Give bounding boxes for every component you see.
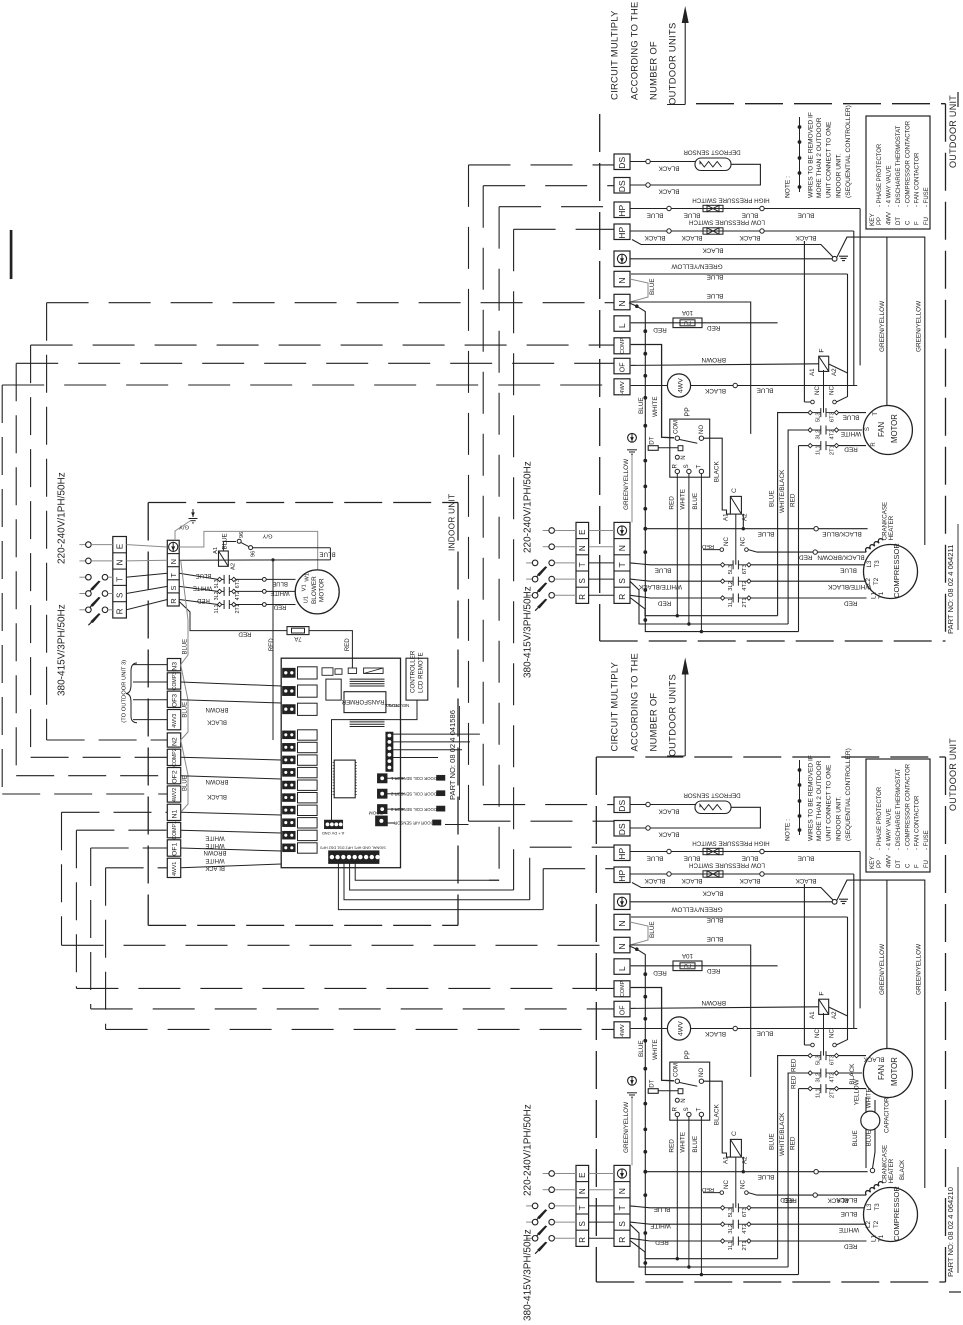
black bond wire to earth bbox=[632, 240, 834, 259]
svg-text:WIRES TO BE REMOVED IF: WIRES TO BE REMOVED IF bbox=[807, 112, 814, 198]
svg-text:BLUE: BLUE bbox=[654, 1205, 671, 1212]
svg-text:OF: OF bbox=[620, 1005, 627, 1015]
svg-text:DT: DT bbox=[649, 1079, 656, 1087]
svg-text:4T2: 4T2 bbox=[830, 1073, 836, 1083]
svg-text:WHITE: WHITE bbox=[680, 489, 687, 510]
svg-text:HP: HP bbox=[617, 848, 627, 860]
svg-text:BLACK: BLACK bbox=[714, 1104, 721, 1126]
removable-wire marker line with dots bbox=[799, 760, 801, 835]
svg-text:OF2: OF2 bbox=[171, 770, 178, 783]
svg-text:2T1: 2T1 bbox=[235, 604, 241, 613]
fuse FU 10A bbox=[631, 322, 778, 324]
svg-text:380-415V/3PH/50Hz: 380-415V/3PH/50Hz bbox=[523, 586, 534, 678]
svg-text:BLUE: BLUE bbox=[684, 854, 701, 861]
fan motor bbox=[863, 1049, 912, 1098]
svg-text:3L2: 3L2 bbox=[728, 581, 734, 591]
svg-text:(SEQUENTIAL CONTROLLER): (SEQUENTIAL CONTROLLER) bbox=[845, 748, 852, 841]
svg-text:RED: RED bbox=[657, 600, 671, 607]
svg-text:OUTDOOR UNIT: OUTDOOR UNIT bbox=[948, 738, 958, 811]
PCB relay rows (OUT FAN group) bbox=[283, 668, 296, 677]
svg-text:S: S bbox=[578, 1221, 587, 1226]
svg-text:BLACK: BLACK bbox=[644, 877, 666, 884]
svg-text:S: S bbox=[115, 593, 124, 598]
svg-text:N: N bbox=[617, 920, 627, 926]
svg-text:NC: NC bbox=[814, 1029, 821, 1038]
wires R/S/T risers to F contacts bbox=[778, 1056, 808, 1259]
svg-text:A1: A1 bbox=[213, 547, 219, 554]
svg-text:BLACK: BLACK bbox=[702, 889, 724, 896]
F main contacts 5L3/6T3 3L2/4T2 1L1/2T1 bbox=[808, 410, 812, 414]
svg-text:A1: A1 bbox=[809, 368, 816, 376]
svg-text:BLACK: BLACK bbox=[739, 234, 761, 241]
svg-text:N: N bbox=[115, 559, 124, 565]
green/yellow earth feeders bbox=[837, 880, 925, 1188]
PP sense wires down bbox=[676, 1117, 678, 1259]
svg-text:INDOOR UNIT.: INDOOR UNIT. bbox=[835, 153, 842, 198]
svg-text:INDOOR UNIT: INDOOR UNIT bbox=[447, 494, 456, 551]
supply connections bbox=[543, 530, 549, 532]
svg-text:MORE THAN 2 OUTDOOR: MORE THAN 2 OUTDOOR bbox=[816, 760, 823, 841]
svg-text:BLUE: BLUE bbox=[843, 413, 860, 420]
svg-text:GREEN/YELLOW: GREEN/YELLOW bbox=[623, 458, 630, 510]
wires contacts to blower motor bbox=[236, 578, 296, 580]
fan contactor F coil bbox=[819, 356, 829, 371]
wire N2 down-branch (dotted neutral) bbox=[629, 946, 799, 1275]
svg-text:BLACK: BLACK bbox=[207, 793, 227, 799]
svg-text:WHITE: WHITE bbox=[205, 834, 224, 840]
wire N branch to PP area bbox=[630, 945, 751, 1077]
svg-text:4WV: 4WV bbox=[677, 378, 684, 393]
svg-text:96: 96 bbox=[251, 551, 257, 557]
outdoor unit boundary box (dashed) bbox=[599, 114, 601, 641]
svg-text:HP: HP bbox=[617, 205, 627, 217]
svg-text:WHITE/BLACK: WHITE/BLACK bbox=[638, 583, 682, 590]
wire N jumper bbox=[630, 279, 648, 302]
svg-text:GREEN/YELLOW: GREEN/YELLOW bbox=[879, 300, 886, 352]
wires F contacts to fan motor bbox=[839, 412, 866, 414]
svg-text:BLACK: BLACK bbox=[658, 831, 680, 838]
svg-text:RED: RED bbox=[844, 446, 858, 453]
wires strip to C contacts bbox=[630, 1206, 720, 1208]
fan contactor F coil bbox=[819, 999, 829, 1014]
svg-text:T: T bbox=[695, 465, 702, 469]
svg-text:S: S bbox=[865, 427, 871, 431]
svg-text:RED: RED bbox=[653, 326, 667, 333]
svg-text:CIRCUIT MULTIPLY: CIRCUIT MULTIPLY bbox=[608, 10, 619, 100]
svg-text:S: S bbox=[578, 578, 587, 583]
svg-text:INDOOR COIL SENSOR 1: INDOOR COIL SENSOR 1 bbox=[390, 776, 441, 781]
svg-text:BLUE: BLUE bbox=[196, 572, 212, 578]
svg-text:F: F bbox=[818, 991, 825, 995]
svg-text:RED: RED bbox=[702, 543, 714, 549]
key box bbox=[866, 759, 930, 872]
wire COMP to phase protector COM bbox=[631, 988, 674, 1081]
svg-text:BLACK/BLUE: BLACK/BLUE bbox=[822, 530, 861, 537]
svg-text:R: R bbox=[617, 1237, 627, 1243]
wires C contacts to compressor bbox=[751, 564, 866, 566]
compressor contactor C coil bbox=[730, 1139, 741, 1157]
svg-text:HP: HP bbox=[617, 227, 627, 239]
svg-text:(TO OUTDOOR UNIT 3): (TO OUTDOOR UNIT 3) bbox=[122, 660, 128, 723]
svg-text:DT: DT bbox=[896, 860, 902, 868]
phase protector PP bbox=[670, 419, 710, 477]
svg-text:BROWN: BROWN bbox=[206, 706, 229, 712]
svg-text:C: C bbox=[905, 220, 911, 225]
svg-text:BLACK: BLACK bbox=[207, 719, 227, 725]
svg-text:BLUE: BLUE bbox=[319, 550, 335, 557]
wire DS1 to sensor bbox=[630, 161, 695, 163]
vertical distribution bbox=[272, 560, 274, 740]
svg-text:- DISCHARGE THERMOSTAT: - DISCHARGE THERMOSTAT bbox=[896, 768, 902, 850]
wire OF to fan contactor bbox=[631, 364, 819, 366]
vertical wires right side bbox=[853, 874, 855, 1029]
wire DS1 to sensor bbox=[630, 804, 695, 806]
svg-text:BROWN: BROWN bbox=[701, 999, 726, 1006]
svg-text:4WV3: 4WV3 bbox=[172, 713, 178, 727]
IC chip bbox=[334, 760, 355, 798]
svg-text:PP: PP bbox=[685, 1050, 692, 1060]
svg-text:RED: RED bbox=[844, 600, 858, 607]
svg-text:N3: N3 bbox=[171, 662, 178, 671]
unit2 capacitor bbox=[861, 1111, 880, 1130]
svg-text:RED: RED bbox=[238, 630, 252, 637]
svg-text:BLUE: BLUE bbox=[742, 211, 759, 218]
svg-text:BLACK: BLACK bbox=[704, 387, 726, 394]
interconnect: DS/HP risers bbox=[469, 164, 615, 166]
svg-text:PART NO: 08 02 4 064211: PART NO: 08 02 4 064211 bbox=[946, 545, 955, 634]
svg-text:BLUE: BLUE bbox=[647, 854, 664, 861]
svg-text:BLUE: BLUE bbox=[638, 1040, 645, 1057]
earth node bbox=[630, 258, 832, 260]
earth bond (green/yellow) bbox=[628, 1076, 637, 1085]
svg-text:RED: RED bbox=[844, 1243, 858, 1250]
svg-text:RED: RED bbox=[669, 1139, 676, 1153]
svg-text:T: T bbox=[617, 1205, 627, 1210]
svg-text:L1: L1 bbox=[871, 1235, 878, 1242]
svg-text:N: N bbox=[681, 1098, 687, 1102]
svg-text:COMP: COMP bbox=[620, 337, 626, 354]
wire G/Y to blower bbox=[179, 531, 318, 570]
svg-text:T2: T2 bbox=[873, 577, 880, 585]
interconnect bus: indoor group1 to outdoor unit2 terminals (4WV1/OF1/COMP1/N1) bbox=[62, 811, 168, 813]
svg-text:- FAN CONTACTOR: - FAN CONTACTOR bbox=[915, 152, 921, 207]
svg-text:COMPRESSOR: COMPRESSOR bbox=[892, 1186, 901, 1241]
field terminal strip R S T N E bbox=[576, 1165, 589, 1246]
svg-text:HIGH PRESSURE SWITCH: HIGH PRESSURE SWITCH bbox=[692, 839, 769, 846]
svg-text:DS: DS bbox=[617, 823, 627, 835]
svg-text:ROOM: ROOM bbox=[369, 810, 383, 815]
compressor bbox=[864, 1188, 918, 1242]
svg-text:DS: DS bbox=[617, 800, 627, 812]
F main contacts 5L3/6T3 3L2/4T2 1L1/2T1 bbox=[808, 1053, 812, 1057]
wires R/S/T risers to F contacts bbox=[778, 413, 808, 616]
svg-text:BLACK/BROWN: BLACK/BROWN bbox=[817, 553, 865, 560]
svg-text:1L1: 1L1 bbox=[728, 598, 734, 608]
svg-text:BLUE: BLUE bbox=[798, 211, 815, 218]
key box bbox=[866, 116, 930, 229]
wire N2 down-branch (dotted neutral) bbox=[629, 303, 799, 632]
green/yellow earth feeders bbox=[837, 237, 925, 545]
svg-text:NEUTRAL: NEUTRAL bbox=[387, 703, 409, 708]
svg-text:NO: NO bbox=[699, 1068, 705, 1077]
svg-text:RED: RED bbox=[273, 604, 286, 610]
svg-text:A + DV GND: A + DV GND bbox=[322, 831, 345, 836]
svg-text:1L1: 1L1 bbox=[816, 1088, 822, 1098]
svg-text:CIRCUIT MULTIPLY: CIRCUIT MULTIPLY bbox=[608, 661, 619, 751]
outdoor unit boundary box (dashed) bbox=[595, 757, 597, 1282]
wire N to F coil A2 bbox=[847, 917, 849, 1040]
svg-text:F: F bbox=[915, 221, 921, 225]
svg-text:4T2: 4T2 bbox=[742, 581, 748, 591]
svg-text:NC: NC bbox=[723, 1180, 730, 1189]
svg-text:BLACK: BLACK bbox=[702, 246, 724, 253]
svg-text:BLACK: BLACK bbox=[644, 234, 666, 241]
wire HP1 bbox=[630, 851, 860, 853]
svg-text:RED: RED bbox=[655, 1238, 669, 1245]
svg-text:A2: A2 bbox=[231, 563, 237, 570]
svg-text:INDOOR COIL SENSOR 3: INDOOR COIL SENSOR 3 bbox=[390, 807, 441, 812]
svg-text:R: R bbox=[871, 442, 877, 447]
svg-text:T: T bbox=[873, 412, 879, 416]
svg-text:N: N bbox=[578, 1188, 587, 1194]
svg-text:3L2: 3L2 bbox=[816, 1073, 822, 1083]
svg-text:BLUE: BLUE bbox=[758, 1173, 775, 1180]
svg-text:ACCORDING TO THE: ACCORDING TO THE bbox=[628, 653, 639, 752]
svg-text:BLACK: BLACK bbox=[836, 1196, 858, 1203]
indoor contactor main contacts bbox=[217, 577, 221, 581]
strip output wires to PCB bbox=[181, 682, 282, 686]
field terminal strip R S T N E bbox=[576, 522, 589, 603]
svg-text:BLUE: BLUE bbox=[649, 278, 656, 295]
svg-text:NC: NC bbox=[829, 1029, 836, 1038]
PP R S T terminals bbox=[675, 469, 679, 473]
registration tick left margin bbox=[10, 230, 13, 279]
svg-text:COMP: COMP bbox=[620, 980, 626, 997]
wire PP NO to contactor coil bbox=[704, 1081, 731, 1157]
svg-text:COMP1: COMP1 bbox=[172, 821, 178, 840]
svg-text:RED: RED bbox=[789, 1136, 796, 1150]
svg-text:COMPRESSOR: COMPRESSOR bbox=[892, 543, 901, 598]
svg-text:BLACK: BLACK bbox=[704, 1030, 726, 1037]
bottom routing wires bbox=[630, 1241, 778, 1259]
wire to crankcase heater bbox=[645, 528, 867, 530]
indoor unit boundary box (dashed) bbox=[148, 502, 458, 504]
svg-text:L: L bbox=[617, 966, 627, 971]
wire controller to pcb bbox=[332, 700, 418, 822]
svg-text:BLUE: BLUE bbox=[840, 566, 857, 573]
svg-text:LOW PRESSURE SWITCH: LOW PRESSURE SWITCH bbox=[689, 862, 765, 869]
svg-text:LOW PRESSURE SWITCH: LOW PRESSURE SWITCH bbox=[689, 219, 765, 226]
svg-text:BLUE: BLUE bbox=[707, 935, 724, 942]
wires strip to C contacts bbox=[630, 563, 720, 565]
svg-text:- 4 WAY VALVE: - 4 WAY VALVE bbox=[887, 165, 893, 207]
svg-text:L1: L1 bbox=[871, 592, 878, 599]
svg-text:T: T bbox=[617, 562, 627, 567]
wire N to F coil A2 bbox=[847, 274, 849, 397]
svg-text:T3: T3 bbox=[874, 1203, 881, 1211]
PP sense wires down bbox=[676, 474, 678, 616]
svg-text:A2: A2 bbox=[831, 1011, 838, 1019]
svg-text:KEY: KEY bbox=[869, 212, 876, 226]
svg-text:3L2: 3L2 bbox=[214, 591, 220, 600]
svg-text:4WV: 4WV bbox=[887, 855, 893, 868]
terminal strip DS DS HP HP bbox=[614, 797, 630, 813]
svg-text:T: T bbox=[169, 573, 178, 578]
wires C contacts to compressor bbox=[751, 1207, 866, 1209]
wire COMP to phase protector COM bbox=[631, 345, 674, 438]
svg-text:N2: N2 bbox=[171, 737, 178, 746]
black bond wire to earth bbox=[632, 883, 834, 902]
svg-text:(SEQUENTIAL CONTROLLER): (SEQUENTIAL CONTROLLER) bbox=[845, 105, 852, 198]
4 pin connector bbox=[325, 820, 343, 828]
pcb bottom wires bbox=[338, 863, 543, 909]
svg-text:CAPACITOR: CAPACITOR bbox=[884, 1097, 891, 1133]
svg-text:T1: T1 bbox=[878, 591, 885, 599]
svg-text:PP: PP bbox=[877, 217, 883, 225]
earth terminal (upper) bbox=[614, 251, 630, 267]
svg-text:WHITE: WHITE bbox=[193, 584, 212, 590]
svg-text:NC: NC bbox=[740, 537, 747, 546]
earth terminal (upper) bbox=[614, 894, 630, 910]
svg-text:DEFROST SENSOR: DEFROST SENSOR bbox=[683, 791, 741, 798]
svg-text:INDOOR AIR SENSOR: INDOOR AIR SENSOR bbox=[394, 821, 438, 826]
svg-text:HEATER: HEATER bbox=[888, 1158, 895, 1183]
discharge thermostat DT bbox=[648, 1089, 658, 1094]
svg-text:- PHASE PROTECTOR: - PHASE PROTECTOR bbox=[877, 143, 883, 207]
svg-text:L3: L3 bbox=[866, 1203, 873, 1210]
svg-text:BLUE: BLUE bbox=[758, 530, 775, 537]
svg-text:BLUE: BLUE bbox=[272, 580, 288, 586]
svg-text:BLUE: BLUE bbox=[183, 639, 189, 655]
svg-text:A1: A1 bbox=[723, 513, 730, 521]
svg-text:OF: OF bbox=[620, 362, 627, 372]
svg-text:T: T bbox=[578, 1205, 587, 1210]
svg-text:4WV: 4WV bbox=[677, 1021, 684, 1036]
svg-text:RED: RED bbox=[197, 597, 210, 603]
phase protector PP bbox=[670, 1062, 710, 1120]
svg-text:FU: FU bbox=[684, 319, 691, 325]
svg-text:WHITE: WHITE bbox=[650, 1222, 671, 1229]
svg-text:4T2: 4T2 bbox=[742, 1224, 748, 1234]
svg-text:V1: V1 bbox=[302, 584, 308, 591]
svg-text:BLUE: BLUE bbox=[692, 1136, 699, 1153]
wire R to 7A fuse to PCB bbox=[179, 602, 287, 631]
overload contacts 96 96 bbox=[223, 542, 236, 552]
svg-text:OF1: OF1 bbox=[171, 842, 178, 855]
svg-text:WHITE/BLACK: WHITE/BLACK bbox=[779, 469, 786, 513]
svg-text:GREEN/YELLOW: GREEN/YELLOW bbox=[879, 943, 886, 995]
svg-text:C: C bbox=[905, 863, 911, 868]
svg-text:WHITE: WHITE bbox=[270, 590, 289, 596]
svg-text:- FUSE: - FUSE bbox=[924, 830, 930, 850]
svg-text:WHITE: WHITE bbox=[205, 857, 224, 863]
svg-text:GREEN/YELLOW: GREEN/YELLOW bbox=[670, 905, 722, 912]
svg-text:BLUE: BLUE bbox=[707, 916, 724, 923]
PP R S T terminals bbox=[675, 1112, 679, 1116]
svg-text:4WV: 4WV bbox=[620, 381, 626, 394]
svg-text:R: R bbox=[578, 594, 587, 600]
svg-text:N: N bbox=[617, 545, 627, 551]
svg-text:LCD REMOTE: LCD REMOTE bbox=[418, 652, 425, 693]
wires F contacts to fan motor bbox=[839, 1055, 866, 1057]
svg-text:KEY: KEY bbox=[869, 855, 876, 869]
svg-text:A1: A1 bbox=[723, 1156, 730, 1164]
svg-text:2T1: 2T1 bbox=[742, 1241, 748, 1251]
svg-text:BLACK: BLACK bbox=[863, 1055, 885, 1062]
svg-text:5L3: 5L3 bbox=[728, 565, 734, 575]
svg-text:BLACK: BLACK bbox=[681, 877, 703, 884]
svg-text:BLOWER: BLOWER bbox=[311, 576, 318, 604]
svg-text:HIGH PRESSURE SWITCH: HIGH PRESSURE SWITCH bbox=[692, 196, 769, 203]
compressor bbox=[864, 545, 918, 599]
svg-text:220-240V/1PH/50Hz: 220-240V/1PH/50Hz bbox=[523, 1104, 534, 1196]
indoor contactor coil bbox=[219, 551, 229, 566]
wire HP2 bbox=[630, 873, 854, 875]
svg-text:WHITE/BLACK: WHITE/BLACK bbox=[827, 583, 871, 590]
svg-text:3L2: 3L2 bbox=[816, 430, 822, 440]
4WV solenoid bbox=[631, 1028, 668, 1030]
inner terminal strip earth N T S R bbox=[614, 522, 630, 603]
PCB fuse bbox=[348, 668, 356, 674]
svg-text:N: N bbox=[578, 545, 587, 551]
indoor field strip R S T N E bbox=[113, 537, 127, 619]
svg-text:WHITE: WHITE bbox=[865, 1088, 872, 1108]
svg-text:OUTDOOR UNIT: OUTDOOR UNIT bbox=[948, 95, 958, 168]
svg-text:DS: DS bbox=[617, 157, 627, 169]
svg-text:MORE THAN 2 OUTDOOR: MORE THAN 2 OUTDOOR bbox=[816, 117, 823, 198]
svg-text:E: E bbox=[115, 544, 124, 549]
svg-text:10A: 10A bbox=[681, 309, 693, 316]
svg-text:ACCORDING TO THE: ACCORDING TO THE bbox=[628, 1, 639, 100]
PCB relay rows (4WV/COMP group) bbox=[283, 731, 296, 739]
svg-text:6T3: 6T3 bbox=[742, 564, 748, 574]
svg-text:BROWN: BROWN bbox=[701, 356, 726, 363]
svg-text:MOTOR: MOTOR bbox=[890, 414, 899, 443]
transformer bbox=[350, 678, 385, 680]
svg-text:RED: RED bbox=[799, 553, 813, 560]
svg-text:4WV: 4WV bbox=[620, 1024, 626, 1037]
svg-text:OUTDOOR UNITS: OUTDOOR UNITS bbox=[666, 22, 677, 105]
svg-text:F: F bbox=[818, 348, 825, 352]
wire HP2 bbox=[630, 230, 854, 232]
wire earth G/Y bbox=[175, 521, 190, 540]
svg-text:DS: DS bbox=[617, 180, 627, 192]
svg-text:GREEN/YELLOW: GREEN/YELLOW bbox=[916, 943, 923, 995]
svg-text:2T1: 2T1 bbox=[742, 598, 748, 608]
svg-text:WHITE: WHITE bbox=[205, 842, 224, 848]
svg-text:BLUE: BLUE bbox=[798, 854, 815, 861]
wire sensor return to DS2 bbox=[630, 807, 760, 828]
svg-text:A1: A1 bbox=[809, 1011, 816, 1019]
wires field strip to indoor terminals bbox=[126, 545, 167, 547]
svg-text:BLACK: BLACK bbox=[658, 807, 680, 814]
svg-text:N: N bbox=[617, 277, 627, 283]
svg-text:96: 96 bbox=[239, 532, 245, 538]
supply connections bbox=[543, 1173, 549, 1175]
N jumpers on strip bbox=[181, 560, 188, 664]
indoor earth symbol bbox=[192, 509, 194, 517]
svg-text:BLACK: BLACK bbox=[795, 234, 817, 241]
svg-text:BLUE: BLUE bbox=[649, 921, 656, 938]
svg-text:BLUE: BLUE bbox=[684, 211, 701, 218]
svg-text:OF3: OF3 bbox=[171, 694, 178, 707]
svg-text:BLUE: BLUE bbox=[769, 1133, 776, 1150]
svg-text:RED: RED bbox=[790, 1075, 797, 1089]
svg-text:BLUE: BLUE bbox=[742, 854, 759, 861]
svg-text:COM: COM bbox=[674, 1063, 680, 1077]
heater return wire bbox=[757, 551, 866, 553]
svg-text:L2: L2 bbox=[865, 1221, 872, 1228]
